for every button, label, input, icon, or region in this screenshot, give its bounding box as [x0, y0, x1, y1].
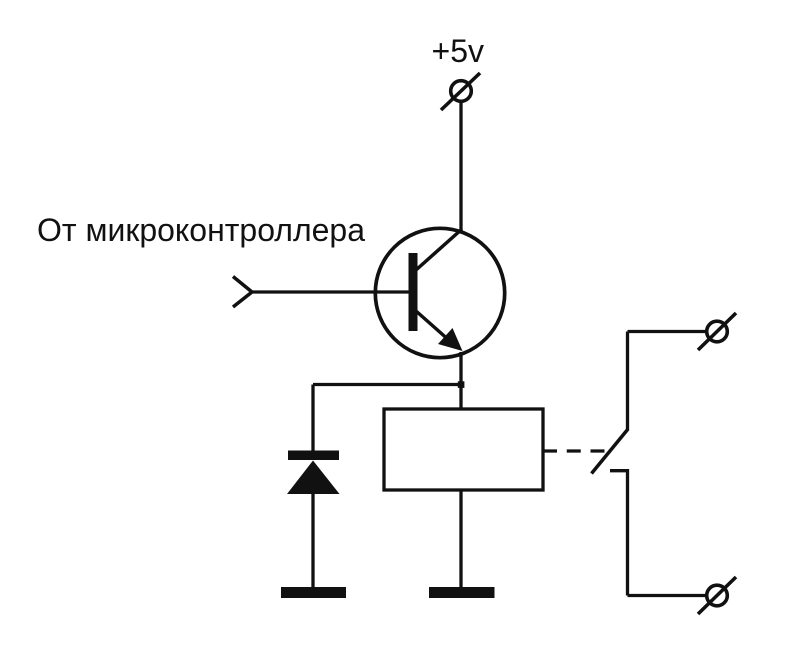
switch blade: [592, 429, 629, 474]
switch bottom contact: [610, 471, 628, 596]
wire relay to ground: [459, 490, 462, 588]
terminal bottom right: [698, 577, 736, 614]
ground right: [429, 587, 495, 598]
dashed actuator link: [543, 449, 605, 452]
diode D1 cathode bar: [288, 451, 339, 461]
transistor Q1: [375, 228, 504, 357]
wire switch bottom: [628, 594, 707, 597]
wire switch fixed contact: [626, 332, 629, 431]
relay K1 coil: [384, 409, 543, 490]
node junction: [458, 381, 465, 388]
diode D1 anode triangle: [287, 461, 340, 495]
wire +5v to collector: [459, 101, 462, 232]
terminal +5V: [441, 73, 480, 110]
svg-text:+5v: +5v: [432, 33, 484, 69]
wire emitter to relay: [459, 352, 462, 409]
svg-text:От микроконтроллера: От микроконтроллера: [37, 212, 365, 248]
wire switch top: [628, 330, 707, 333]
wire diode top: [311, 385, 314, 454]
wire junction to diode: [313, 383, 461, 386]
terminal top right: [698, 313, 736, 350]
ground left: [281, 587, 346, 598]
base wire: [252, 290, 409, 293]
wire diode bottom: [311, 490, 314, 588]
input arrow: [233, 277, 252, 308]
